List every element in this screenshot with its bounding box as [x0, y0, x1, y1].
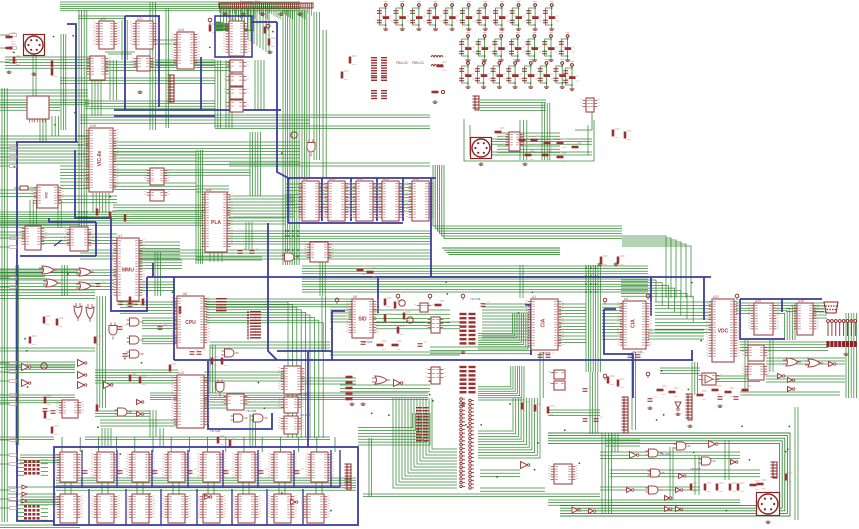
svg-text:SID: SID [358, 317, 367, 323]
svg-text:U32: U32 [303, 177, 309, 181]
svg-text:U33: U33 [329, 177, 335, 181]
svg-text:PBB-DC: PBB-DC [412, 61, 425, 65]
svg-text:74LS08: 74LS08 [298, 392, 309, 396]
svg-text:U14: U14 [178, 28, 184, 32]
svg-text:U21: U21 [137, 17, 143, 21]
svg-text:74LS08: 74LS08 [300, 413, 311, 417]
svg-text:CIA: CIA [541, 318, 547, 327]
svg-text:U19: U19 [90, 124, 96, 128]
svg-text:U29: U29 [755, 299, 761, 303]
svg-text:U1: U1 [532, 295, 536, 299]
svg-text:U6: U6 [183, 292, 187, 296]
svg-text:74LS08: 74LS08 [246, 409, 257, 413]
svg-text:U4: U4 [624, 297, 628, 301]
svg-text:U23: U23 [100, 17, 106, 21]
svg-text:74LS08: 74LS08 [210, 429, 221, 433]
svg-text:PBA-DC: PBA-DC [396, 61, 409, 65]
svg-text:U35: U35 [383, 177, 389, 181]
svg-text:CIA: CIA [631, 319, 637, 328]
svg-text:74LS08: 74LS08 [632, 350, 643, 354]
svg-text:U36: U36 [413, 177, 419, 181]
svg-text:U10: U10 [178, 371, 184, 375]
svg-text:U11: U11 [206, 188, 212, 192]
svg-text:U5: U5 [353, 295, 357, 299]
svg-text:VDC: VDC [718, 329, 729, 335]
svg-text:U34: U34 [357, 177, 363, 181]
svg-text:U13: U13 [230, 17, 236, 21]
svg-text:74LS08: 74LS08 [470, 297, 481, 301]
svg-text:VIC: VIC [44, 192, 49, 199]
svg-text:U30: U30 [798, 299, 804, 303]
svg-text:Expansion Port: Expansion Port [240, 0, 261, 4]
svg-text:U7: U7 [118, 234, 122, 238]
svg-text:74LS08: 74LS08 [690, 467, 701, 471]
svg-text:VIC-IIe: VIC-IIe [97, 151, 103, 167]
svg-text:74LS08: 74LS08 [540, 351, 551, 355]
svg-text:MMU: MMU [122, 268, 134, 274]
svg-text:CPU: CPU [185, 320, 196, 326]
svg-text:PLA: PLA [211, 220, 221, 226]
svg-text:U22: U22 [713, 295, 719, 299]
svg-text:74LS08: 74LS08 [362, 340, 373, 344]
